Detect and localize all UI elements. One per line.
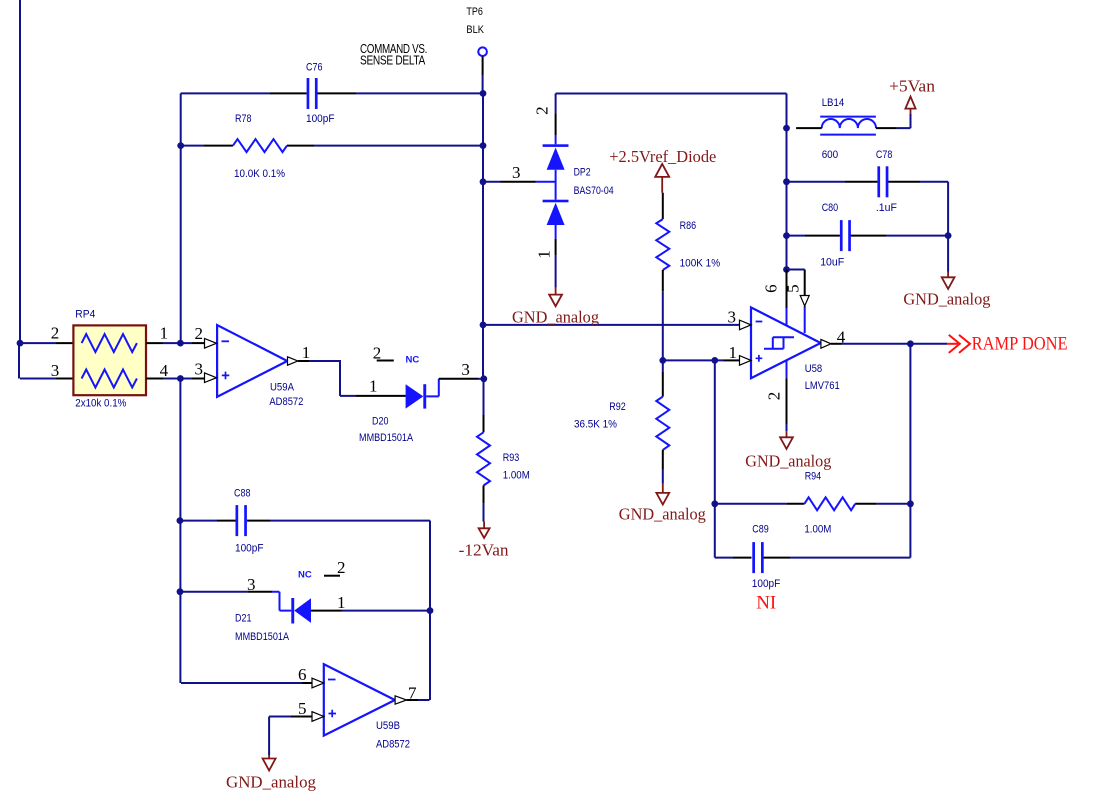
node GND row junction (480, 322, 487, 329)
wire C89 row (715, 557, 733, 559)
op-amp U58 comparator (751, 307, 821, 378)
svg-text:MMBD1501A: MMBD1501A (235, 631, 290, 643)
capacitor C89 (752, 542, 763, 573)
svg-text:GND_analog: GND_analog (903, 290, 990, 309)
wire RP4 pin2 row (20, 342, 56, 344)
svg-text:C88: C88 (234, 487, 251, 499)
diode D20 (406, 379, 439, 409)
svg-text:3: 3 (195, 359, 204, 378)
svg-text:1.00M: 1.00M (804, 523, 831, 535)
svg-text:3: 3 (247, 575, 256, 594)
wire right column (786, 94, 788, 270)
svg-text:R86: R86 (680, 220, 697, 232)
wire left vertical from top (19, 0, 21, 343)
wire output column (909, 344, 911, 558)
svg-text:100K 1%: 100K 1% (680, 258, 721, 270)
NC stub D21 (324, 575, 340, 577)
node pin5-6 junction (783, 266, 790, 273)
pin marker U58 pin3 (740, 320, 752, 330)
svg-text:3: 3 (461, 360, 470, 379)
svg-text:LB14: LB14 (822, 97, 845, 109)
ground C80 (942, 272, 955, 289)
svg-text:6: 6 (298, 665, 307, 684)
node TP6 junction (480, 90, 487, 97)
wire C88 row (180, 520, 217, 522)
svg-text:C76: C76 (306, 62, 323, 74)
diode D21 (291, 598, 311, 624)
svg-text:D20: D20 (372, 416, 389, 428)
test point TP6 (478, 47, 487, 56)
svg-text:2: 2 (51, 324, 60, 343)
svg-text:3: 3 (51, 361, 60, 380)
node R94 left junction (711, 500, 718, 507)
resistor R94 (804, 497, 855, 510)
wire feedback column (714, 360, 716, 557)
node feedback junction (711, 357, 718, 364)
wire GND_analog row to U58 pin3 (483, 324, 740, 326)
wire U58 pin6 (786, 270, 788, 309)
node D21 pin1 junction (427, 607, 434, 614)
svg-text:MMBD1501A: MMBD1501A (359, 432, 414, 444)
resistor R86 (662, 193, 664, 219)
svg-text:1: 1 (302, 343, 311, 362)
capacitor C76 (307, 78, 318, 109)
inductor LB14 (820, 117, 876, 135)
svg-text:2: 2 (337, 558, 346, 577)
svg-text:2: 2 (765, 392, 784, 401)
svg-text:100pF: 100pF (235, 542, 264, 554)
ground U59B pin5 (263, 756, 276, 771)
off-page connector RAMP DONE (947, 335, 970, 353)
svg-text:1: 1 (535, 250, 554, 259)
svg-text:6: 6 (761, 284, 780, 293)
svg-text:U59A: U59A (270, 382, 295, 394)
svg-text:2: 2 (195, 324, 204, 343)
svg-text:5: 5 (784, 284, 803, 293)
svg-text:R94: R94 (805, 470, 822, 482)
wire center vertical (482, 93, 484, 378)
wire RP4 pin1 to U59A (146, 342, 163, 344)
pin marker U59A pin3 (205, 373, 217, 383)
resistor pack RP4 (73, 325, 146, 395)
node C78 junction (783, 178, 790, 185)
pin marker U58 pin1 (740, 356, 752, 366)
svg-text:100pF: 100pF (306, 113, 335, 125)
node RP4 left junction (17, 340, 24, 347)
wire C76 row (181, 92, 270, 94)
svg-text:U59B: U59B (376, 720, 400, 732)
svg-text:1: 1 (337, 593, 346, 612)
node R86 R92 junction (659, 357, 666, 364)
svg-text:5: 5 (298, 699, 307, 718)
power +5Van (905, 97, 915, 114)
pin marker U59A pin2 (205, 339, 217, 349)
wire DP2 pin3 (483, 181, 501, 183)
svg-text:1: 1 (729, 343, 738, 362)
svg-text:BAS70-04: BAS70-04 (574, 185, 614, 197)
svg-text:1.00M: 1.00M (503, 469, 530, 481)
node R94 right junction (907, 500, 914, 507)
svg-text:C89: C89 (752, 523, 769, 535)
resistor R92 (662, 360, 664, 372)
svg-text:2x10k 0.1%: 2x10k 0.1% (75, 398, 126, 410)
capacitor C78 (877, 166, 888, 197)
svg-text:C78: C78 (876, 149, 893, 161)
wire C78 row (787, 181, 846, 183)
power +2.5Vref_Diode (655, 164, 669, 193)
svg-text:NC: NC (406, 355, 420, 366)
capacitor C88 (236, 505, 247, 536)
wire DP2 top row (556, 93, 787, 95)
node C80 right junction (945, 232, 952, 239)
power -12Van (479, 522, 490, 538)
svg-text:600: 600 (822, 149, 839, 161)
ground U58 pin2 (780, 431, 793, 449)
wire U59A output to D20 (298, 360, 310, 362)
wire U59B pin6 row (181, 682, 302, 684)
svg-text:+5Van: +5Van (889, 77, 936, 96)
wire TP6 drop (482, 56, 484, 75)
wire right column lower (429, 521, 431, 700)
node RP4 pin1 junction (177, 340, 184, 347)
wire RP4 pin4 to U59A (146, 378, 163, 380)
svg-text:AD8572: AD8572 (269, 396, 303, 408)
svg-text:NI: NI (756, 593, 776, 614)
svg-text:U58: U58 (805, 363, 823, 375)
svg-text:AD8572: AD8572 (376, 739, 410, 751)
NC stub D20 (377, 360, 394, 362)
svg-text:GND_analog: GND_analog (619, 505, 706, 524)
wire R94 row (715, 503, 787, 505)
node D20 pin3 junction (480, 375, 487, 382)
node DP2 pin3 junction (480, 178, 487, 185)
svg-text:C80: C80 (822, 202, 839, 214)
resistor R93 (483, 379, 485, 415)
svg-text:TP6: TP6 (466, 6, 483, 18)
node R78 right junction (480, 142, 487, 149)
svg-text:10uF: 10uF (820, 256, 844, 268)
svg-text:2: 2 (533, 106, 552, 115)
wire U58 output row (831, 343, 842, 345)
svg-text:NC: NC (298, 570, 312, 581)
capacitor C80 (840, 220, 851, 251)
wire feedback left vertical upper (180, 93, 182, 343)
svg-text:.1uF: .1uF (876, 202, 897, 214)
wire C80 row (787, 235, 806, 237)
svg-text:3: 3 (512, 163, 521, 182)
node C88 left junction (177, 517, 184, 524)
svg-text:-12Van: -12Van (459, 541, 509, 560)
svg-text:R93: R93 (503, 452, 520, 464)
svg-text:RP4: RP4 (75, 309, 95, 321)
svg-text:DP2: DP2 (574, 167, 591, 179)
wire R78 row (181, 145, 204, 147)
pin marker U59B output (395, 696, 407, 704)
svg-text:D21: D21 (235, 612, 252, 624)
node RP4 pin4 junction (177, 375, 184, 382)
svg-text:GND_analog: GND_analog (745, 451, 831, 470)
wire U59B output (407, 699, 418, 701)
wire D21 pin3 row (180, 591, 248, 593)
node D21 pin3 junction (177, 588, 184, 595)
wire RP4 pin3 row (20, 378, 56, 380)
pin marker U58 output (821, 339, 831, 348)
pin marker U59B pin5 (312, 712, 324, 722)
op-amp U59A (217, 325, 287, 397)
svg-text:100pF: 100pF (752, 578, 781, 590)
svg-text:1: 1 (160, 324, 169, 343)
svg-text:GND_analog: GND_analog (512, 308, 599, 327)
svg-text:10.0K 0.1%: 10.0K 0.1% (234, 168, 285, 180)
ground DP2 (549, 288, 562, 307)
svg-text:+2.5Vref_Diode: +2.5Vref_Diode (609, 147, 716, 166)
svg-text:1: 1 (369, 377, 378, 396)
pin marker U59B pin6 (312, 678, 324, 688)
wire U58 pin2 (786, 360, 788, 378)
svg-text:SENSE DELTA: SENSE DELTA (360, 54, 426, 68)
wire left vertical RP4 drop (18, 343, 20, 378)
pin marker U58 pin5 (800, 296, 809, 307)
node C80 junction (783, 232, 790, 239)
pin marker U59A output (288, 357, 298, 365)
svg-text:RAMP DONE: RAMP DONE (972, 333, 1068, 354)
svg-text:4: 4 (160, 361, 169, 380)
svg-text:R92: R92 (609, 401, 626, 413)
wire U58 pin5 jog (787, 269, 805, 271)
svg-text:3: 3 (728, 308, 737, 327)
node LB14 junction (783, 125, 790, 132)
svg-text:LMV761: LMV761 (805, 380, 840, 392)
svg-text:BLK: BLK (466, 24, 484, 36)
op-amp U59B (324, 664, 395, 735)
wire U59B pin5 (269, 716, 291, 718)
resistor R78 (233, 139, 287, 152)
wire U58 pin1 row (663, 359, 724, 361)
svg-text:GND_analog: GND_analog (226, 773, 316, 792)
ground R92 (656, 484, 669, 505)
diode pair DP2 (543, 94, 569, 288)
svg-text:R78: R78 (235, 113, 252, 125)
node R78 left junction (177, 142, 184, 149)
svg-text:36.5K 1%: 36.5K 1% (574, 419, 617, 431)
wire left vertical lower (179, 379, 181, 684)
node output junction (907, 340, 914, 347)
